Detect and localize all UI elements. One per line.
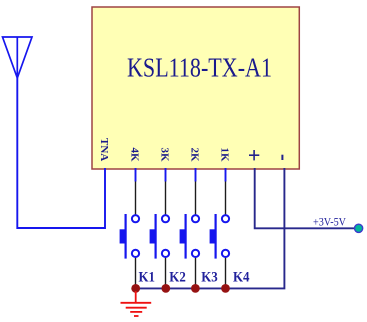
svg-text:2K: 2K [189,148,201,163]
junction dot J3 [191,284,200,293]
wire switch S4 top (black) [225,182,227,216]
pin stub K2 [195,168,197,182]
pushbutton S3 (K3) [180,214,199,259]
pin label + [249,150,259,160]
wire switch S1 bottom (black) [135,257,137,289]
junction dot J1 [131,284,140,293]
ground symbol [121,291,152,316]
antenna E1 [3,37,33,78]
svg-text:+3V-5V: +3V-5V [313,214,346,228]
terminal dot +3V-5V [355,224,363,232]
pin stub K3 [165,168,167,182]
module box U1 [92,7,299,169]
wire switch S3 bottom (black) [195,257,197,289]
svg-text:K1: K1 [139,269,156,285]
wire GND bus [136,168,285,288]
pin stub K1 [225,168,227,182]
pin stub K4 [135,168,137,182]
svg-text:TNA: TNA [98,138,110,161]
svg-text:3K: 3K [159,148,171,163]
wire switch S3 top (black) [195,182,197,216]
wire switch S2 top (black) [165,182,167,216]
pushbutton S2 (K2) [150,214,169,259]
wire switch S1 top (black) [135,182,137,216]
wire +V net [255,168,355,228]
pushbutton S4 (K4) [210,214,229,259]
svg-text:K4: K4 [233,269,250,285]
pushbutton S1 (K1) [120,214,139,259]
junction dot J2 [161,284,170,293]
svg-text:K3: K3 [201,269,218,285]
wire switch S2 bottom (black) [165,257,167,289]
junction dot J4 [221,284,230,293]
svg-text:K2: K2 [169,269,186,285]
svg-text:KSL118-TX-A1: KSL118-TX-A1 [127,53,272,83]
svg-text:1K: 1K [219,148,231,163]
pin label - [281,155,283,160]
wire ANT net (antenna feed to ANT pin) [17,78,105,228]
wire switch S4 bottom (black) [225,257,227,289]
svg-text:4K: 4K [129,148,141,163]
